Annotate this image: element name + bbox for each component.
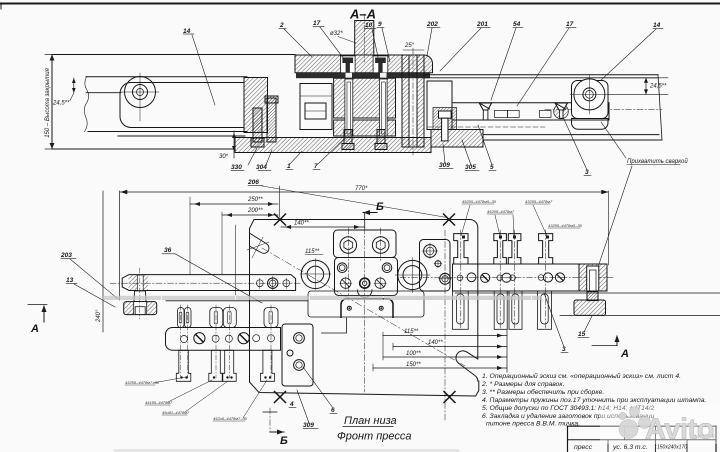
svg-text:17: 17 — [313, 20, 321, 27]
svg-text:Б: Б — [280, 435, 288, 447]
svg-text:24,5**: 24,5** — [649, 84, 667, 90]
svg-text:17: 17 — [566, 21, 574, 28]
svg-text:10: 10 — [365, 22, 373, 29]
svg-text:Б: Б — [376, 201, 384, 213]
dimension 200 — [222, 214, 278, 216]
section marker B bottom — [269, 408, 271, 432]
svg-text:45205–4478м5–30: 45205–4478м5–30 — [462, 199, 497, 204]
weld cross X1 top — [275, 214, 286, 225]
ram break line — [84, 77, 88, 132]
main lower die plate outline — [250, 220, 479, 397]
base plate front edge line — [166, 300, 308, 302]
right table lines — [424, 74, 658, 76]
section marker A left — [28, 304, 47, 306]
svg-text:309: 309 — [439, 162, 450, 169]
punch holder block lower — [334, 120, 396, 136]
spring plunger 9/10 right — [373, 56, 388, 73]
svg-text:План низа: План низа — [344, 415, 397, 427]
plate bolt circle — [125, 77, 156, 108]
I-beam punch 1 — [454, 234, 468, 264]
countersunk screw right with spring pocket — [554, 104, 569, 119]
punch holder block upper — [334, 78, 396, 118]
svg-text:ø32*: ø32* — [330, 31, 343, 37]
right clamp block — [572, 81, 609, 119]
svg-text:54: 54 — [513, 21, 521, 28]
countersunk screw left — [479, 103, 492, 110]
svg-text:43255–4478м5–30: 43255–4478м5–30 — [548, 223, 583, 228]
svg-text:44155–4478м7: 44155–4478м7 — [145, 400, 173, 405]
svg-text:115**: 115** — [305, 249, 320, 255]
right guide bushing — [398, 260, 427, 289]
svg-text:ус. 6,3 т.с.: ус. 6,3 т.с. — [612, 444, 648, 451]
svg-text:140**: 140** — [428, 340, 443, 346]
svg-text:309: 309 — [303, 422, 314, 429]
svg-text:150 – Высота закрытия: 150 – Высота закрытия — [45, 67, 51, 137]
left vertical extension lines — [102, 191, 104, 332]
punch clamp rail — [453, 264, 608, 291]
rail plate right — [452, 103, 609, 120]
faint watermark band across plan view — [105, 296, 540, 300]
svg-text:4: 4 — [289, 401, 294, 408]
svg-text:140**: 140** — [294, 221, 309, 227]
right base lines — [455, 292, 720, 294]
lower clamp rail left — [165, 328, 280, 351]
guide block white — [427, 81, 452, 130]
guide pillar 202 — [402, 55, 409, 147]
overall width dimension 770 — [120, 191, 608, 193]
svg-text:43255–4478м7: 43255–4478м7 — [525, 199, 553, 204]
svg-text:А–А: А–А — [349, 7, 376, 22]
part 14 adapter plate — [120, 83, 244, 128]
bolt 309 (section) — [433, 108, 457, 130]
svg-text:30*: 30* — [219, 154, 229, 160]
left clamp tabs above rail — [178, 308, 279, 328]
svg-text:А: А — [30, 323, 39, 335]
upper shoe top line — [52, 54, 295, 56]
svg-text:9: 9 — [378, 21, 382, 28]
svg-text:25°: 25° — [404, 43, 415, 49]
svg-text:3. ** Размеры обеспечить при с: 3. ** Размеры обеспечить при сборке. — [482, 388, 604, 396]
fingers below rail — [453, 291, 552, 329]
dimension 250 — [190, 203, 278, 205]
base shoe plate part 1 — [235, 138, 431, 153]
svg-text:пресс: пресс — [574, 444, 593, 451]
hatched rib of upper shoe — [244, 78, 268, 133]
sheet top border — [0, 3, 720, 5]
notes list — [481, 372, 706, 428]
bottom dimension ladder — [383, 335, 507, 337]
left height dimension 150 — [51, 55, 53, 150]
faint bottom band — [115, 449, 458, 452]
svg-text:45205–4478м7: 45205–4478м7 — [487, 209, 515, 214]
stripper plate dark band — [296, 73, 430, 78]
shank — [355, 21, 374, 56]
svg-text:330: 330 — [231, 164, 242, 171]
spring plunger 17 left — [340, 56, 355, 73]
svg-text:202: 202 — [426, 21, 438, 28]
die insert holder block — [420, 239, 451, 291]
weld cross X3 bottom — [275, 392, 286, 403]
svg-text:150**: 150** — [406, 362, 421, 368]
svg-text:200**: 200** — [247, 208, 263, 214]
svg-text:100**: 100** — [406, 351, 421, 357]
ram bottom face line — [86, 92, 121, 94]
lower middle plate — [308, 291, 424, 317]
svg-text:45и91–4478м7: 45и91–4478м7 — [162, 410, 190, 415]
table lines left — [88, 131, 247, 133]
bolt 304 — [265, 96, 278, 142]
I-beam punch 3 — [539, 234, 553, 264]
left guide bushing — [301, 260, 329, 288]
T foot right side — [587, 292, 598, 301]
lower right base corner hatched — [431, 130, 483, 148]
punch bolts into base — [342, 130, 387, 150]
svg-text:Avito: Avito — [645, 414, 714, 446]
I-beam punch pair 2 — [494, 234, 507, 264]
bolt 330 — [251, 108, 264, 147]
svg-text:305: 305 — [465, 164, 476, 171]
svg-text:14: 14 — [653, 22, 661, 29]
svg-text:36: 36 — [164, 247, 172, 254]
right block bolt circle — [574, 79, 605, 110]
central spacer block — [335, 258, 398, 296]
rail right end dimension extension — [607, 191, 609, 265]
ram plate top line — [86, 76, 247, 78]
title block frame — [568, 425, 717, 427]
plate right edge below rail and hook slot — [456, 265, 478, 381]
svg-text:Фронт пресса: Фронт пресса — [337, 431, 412, 443]
svg-text:24,5**: 24,5** — [52, 101, 70, 107]
dimension 30 — [233, 131, 235, 158]
spring housing block — [300, 84, 332, 130]
svg-text:1: 1 — [287, 163, 291, 170]
central die block with socket screws — [334, 230, 397, 258]
watermark avito — [600, 404, 720, 446]
left clamp rail strip — [122, 275, 295, 291]
T feet below left rail — [176, 350, 274, 381]
svg-text:питоне пресса В.В.М. тичка.: питоне пресса В.В.М. тичка. — [486, 421, 580, 428]
svg-text:13: 13 — [66, 277, 74, 284]
angled open slot top-left — [250, 234, 269, 254]
punch centerlines — [461, 230, 546, 330]
svg-text:201: 201 — [476, 21, 488, 28]
svg-text:770*: 770* — [355, 186, 368, 192]
right dimension 24,5 — [610, 77, 668, 79]
svg-text:304: 304 — [256, 164, 267, 171]
svg-text:1. Операционный эскиз см. «опе: 1. Операционный эскиз см. «операционный … — [482, 372, 681, 380]
svg-text:452и5–4478м7–30: 452и5–4478м7–30 — [213, 416, 248, 421]
rail holes — [256, 280, 263, 287]
svg-text:2. * Размеры для справок.: 2. * Размеры для справок. — [481, 380, 565, 388]
svg-text:250**: 250** — [247, 197, 263, 203]
clamp centerline dashes — [181, 305, 271, 378]
section marker A right — [592, 345, 617, 347]
left end T-pin — [134, 291, 146, 302]
rail right hatched end — [579, 264, 607, 291]
svg-text:206: 206 — [247, 179, 259, 186]
svg-text:4. Параметры пружины поз.17 у: 4. Параметры пружины поз.17 уточнить при… — [482, 397, 706, 404]
svg-text:2: 2 — [279, 22, 284, 29]
svg-text:Прихватить сваркой: Прихватить сваркой — [627, 158, 688, 165]
svg-text:15: 15 — [578, 331, 586, 338]
dimension 140 — [281, 226, 364, 228]
weld cross X2 top — [444, 214, 455, 225]
upper punch plate part 2 — [295, 55, 433, 73]
svg-text:240°: 240° — [96, 309, 102, 323]
svg-text:7: 7 — [314, 163, 318, 170]
weld cross X4 bottom — [444, 392, 455, 403]
svg-text:115**: 115** — [404, 329, 419, 335]
diagonal centerline — [262, 248, 465, 366]
corner plate with bolt circles — [282, 324, 313, 386]
svg-text:А: А — [620, 348, 629, 360]
punches inside channels — [347, 82, 351, 134]
svg-text:203: 203 — [60, 252, 72, 259]
